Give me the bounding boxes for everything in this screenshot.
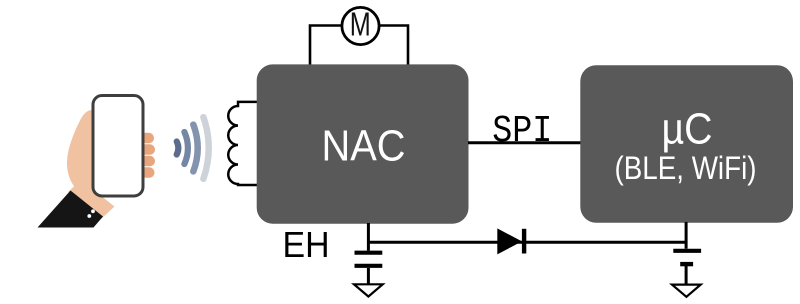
diode D1 cathode bar <box>522 229 526 254</box>
wire uC bottom to battery <box>685 222 688 249</box>
ground GND1 <box>354 284 383 296</box>
ground GND2 <box>672 285 701 297</box>
NFC wave 3 <box>193 125 197 172</box>
svg-text:µC: µC <box>662 105 713 154</box>
sleeve button 1 <box>91 209 95 213</box>
wire motor left leg <box>310 26 342 66</box>
battery B1 positive plate <box>673 249 701 253</box>
capacitor C1 top plate <box>355 251 383 255</box>
NAC block U1 <box>257 64 469 223</box>
fingertip F3 <box>140 156 155 167</box>
hand wrist <box>68 180 115 219</box>
hand palm and thumb <box>67 110 96 205</box>
NFC wave 2 <box>184 132 188 164</box>
wire capacitor to ground <box>367 268 370 284</box>
battery B1 negative plate <box>680 262 693 266</box>
svg-text:NAC: NAC <box>322 122 406 171</box>
fingertip F4 <box>140 167 155 178</box>
antenna coil L1 <box>228 102 260 185</box>
svg-text:SPI: SPI <box>492 110 552 153</box>
wire motor right leg <box>379 26 408 66</box>
wire battery to ground <box>685 264 688 284</box>
phone <box>93 96 143 197</box>
motor M1 circle <box>342 7 379 44</box>
NFC wave 4 <box>203 117 208 179</box>
NFC wave 1 <box>177 142 179 155</box>
fingertip F2 <box>140 144 155 155</box>
suit sleeve <box>38 191 104 228</box>
wire NAC bottom to capacitor <box>367 223 370 251</box>
SPI bus wire <box>468 141 581 144</box>
capacitor C1 bottom plate <box>355 264 383 268</box>
sleeve button 2 <box>87 214 91 218</box>
diode D1 <box>497 228 522 254</box>
svg-text:(BLE, WiFi): (BLE, WiFi) <box>615 150 757 186</box>
svg-text:EH: EH <box>283 224 330 265</box>
wire EH rail to diode and battery <box>368 241 686 244</box>
svg-text:M: M <box>350 6 371 43</box>
fingertip F1 <box>140 133 154 144</box>
microcontroller block U2 <box>580 65 793 223</box>
